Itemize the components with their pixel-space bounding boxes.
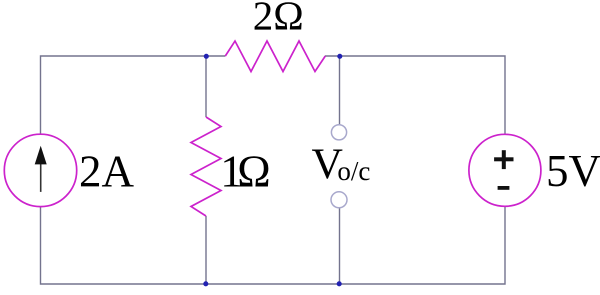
svg-text:2A: 2A bbox=[79, 146, 135, 196]
svg-text:2Ω: 2Ω bbox=[253, 0, 304, 39]
svg-text:Vo/c: Vo/c bbox=[312, 140, 371, 188]
svg-text:1Ω: 1Ω bbox=[220, 147, 270, 197]
svg-text:5V: 5V bbox=[546, 146, 600, 196]
